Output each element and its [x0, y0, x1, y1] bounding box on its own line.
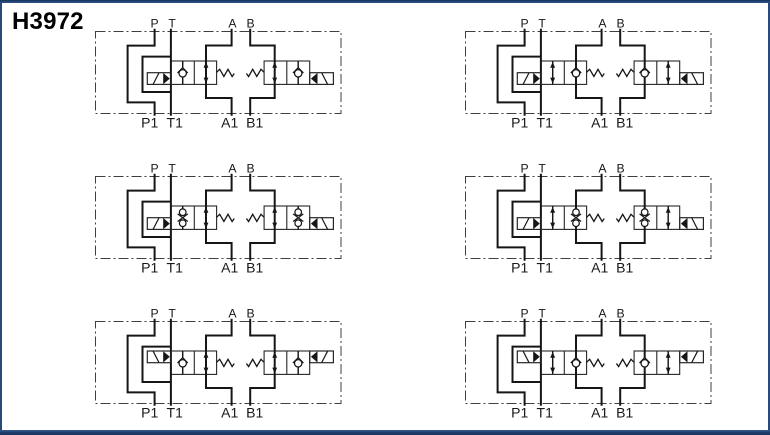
svg-text:A1: A1: [591, 404, 608, 420]
svg-text:P1: P1: [511, 259, 528, 275]
svg-text:T: T: [168, 162, 176, 176]
svg-text:A: A: [228, 17, 237, 31]
svg-text:T1: T1: [537, 114, 554, 130]
svg-text:T1: T1: [537, 404, 554, 420]
svg-text:B: B: [247, 17, 255, 31]
svg-text:P: P: [151, 162, 159, 176]
svg-text:B1: B1: [246, 114, 263, 130]
svg-text:T: T: [538, 162, 546, 176]
svg-text:P1: P1: [141, 114, 158, 130]
svg-text:T: T: [168, 17, 176, 31]
svg-text:T1: T1: [167, 404, 184, 420]
svg-text:T1: T1: [167, 114, 184, 130]
svg-text:B1: B1: [616, 404, 633, 420]
svg-text:B: B: [617, 17, 625, 31]
svg-text:T: T: [538, 17, 546, 31]
svg-text:A: A: [598, 307, 607, 321]
svg-text:B1: B1: [616, 114, 633, 130]
svg-text:P: P: [151, 17, 159, 31]
svg-text:T1: T1: [537, 259, 554, 275]
svg-text:B: B: [247, 307, 255, 321]
svg-text:A1: A1: [221, 259, 238, 275]
svg-text:A: A: [598, 162, 607, 176]
svg-text:B1: B1: [616, 259, 633, 275]
svg-text:P1: P1: [511, 114, 528, 130]
svg-text:P: P: [151, 307, 159, 321]
svg-text:B1: B1: [246, 259, 263, 275]
svg-text:T: T: [538, 307, 546, 321]
svg-text:P1: P1: [141, 259, 158, 275]
svg-text:B: B: [247, 162, 255, 176]
svg-text:P: P: [521, 17, 529, 31]
svg-text:B1: B1: [246, 404, 263, 420]
svg-text:P: P: [521, 307, 529, 321]
svg-text:T: T: [168, 307, 176, 321]
svg-text:B: B: [617, 307, 625, 321]
svg-text:A1: A1: [221, 114, 238, 130]
svg-text:B: B: [617, 162, 625, 176]
svg-text:A: A: [228, 162, 237, 176]
svg-text:A1: A1: [591, 114, 608, 130]
svg-text:T1: T1: [167, 259, 184, 275]
svg-text:A: A: [598, 17, 607, 31]
svg-text:P1: P1: [141, 404, 158, 420]
svg-text:P1: P1: [511, 404, 528, 420]
svg-text:A: A: [228, 307, 237, 321]
svg-text:P: P: [521, 162, 529, 176]
svg-text:A1: A1: [591, 259, 608, 275]
svg-text:A1: A1: [221, 404, 238, 420]
